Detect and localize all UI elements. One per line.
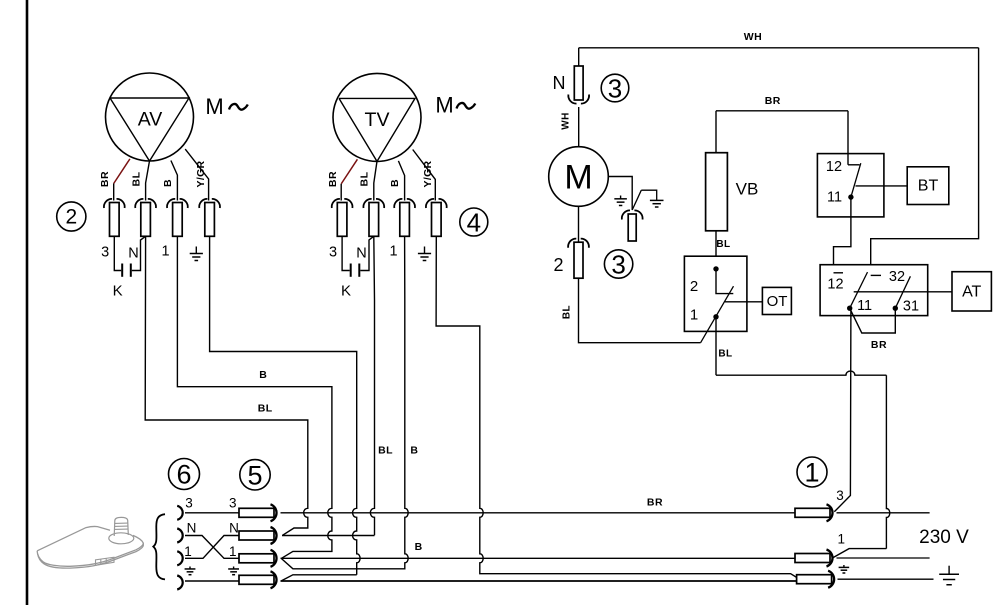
- svg-text:N: N: [187, 521, 197, 536]
- svg-text:BR: BR: [871, 339, 887, 351]
- svg-text:BR: BR: [327, 171, 339, 187]
- svg-text:1: 1: [390, 244, 398, 260]
- svg-text:N: N: [356, 245, 366, 261]
- svg-text:BT: BT: [918, 178, 939, 195]
- svg-text:2: 2: [690, 278, 698, 295]
- svg-text:5: 5: [247, 460, 262, 490]
- svg-text:3: 3: [229, 496, 237, 511]
- svg-text:M: M: [435, 93, 453, 118]
- svg-text:3: 3: [329, 245, 337, 261]
- svg-text:AV: AV: [138, 109, 163, 131]
- svg-text:1: 1: [804, 458, 819, 488]
- svg-text:OT: OT: [767, 293, 788, 310]
- svg-text:M: M: [205, 94, 223, 119]
- svg-text:B: B: [389, 179, 401, 187]
- svg-text:BL: BL: [258, 402, 273, 414]
- svg-text:BL: BL: [131, 171, 143, 186]
- svg-text:3: 3: [836, 488, 844, 503]
- svg-text:BL: BL: [359, 171, 371, 186]
- svg-text:BL: BL: [716, 239, 730, 250]
- svg-text:BR: BR: [99, 171, 111, 187]
- svg-text:B: B: [410, 444, 418, 456]
- svg-text:3: 3: [101, 245, 109, 261]
- svg-text:K: K: [113, 283, 123, 300]
- svg-text:BR: BR: [647, 496, 663, 508]
- svg-text:1: 1: [690, 307, 698, 324]
- svg-text:WH: WH: [744, 31, 763, 43]
- svg-text:11: 11: [857, 298, 872, 314]
- svg-text:BR: BR: [765, 95, 781, 107]
- svg-text:BL: BL: [378, 444, 393, 456]
- svg-text:1: 1: [162, 244, 170, 260]
- svg-text:31: 31: [903, 299, 919, 315]
- svg-text:1: 1: [838, 532, 846, 547]
- svg-text:Y/GR: Y/GR: [422, 160, 434, 187]
- svg-text:K: K: [341, 283, 351, 300]
- svg-text:WH: WH: [561, 112, 572, 129]
- svg-text:1: 1: [229, 544, 237, 559]
- svg-text:Y/GR: Y/GR: [195, 160, 207, 187]
- svg-text:2: 2: [553, 255, 563, 275]
- svg-text:N: N: [128, 245, 138, 261]
- svg-text:3: 3: [608, 74, 622, 104]
- svg-text:2: 2: [65, 206, 77, 229]
- svg-text:VB: VB: [736, 180, 759, 199]
- svg-text:4: 4: [467, 208, 481, 238]
- svg-text:N: N: [553, 73, 566, 93]
- svg-text:3: 3: [611, 250, 625, 280]
- svg-text:230 V: 230 V: [919, 527, 969, 548]
- svg-text:32: 32: [889, 269, 905, 285]
- svg-text:M: M: [564, 159, 592, 197]
- svg-text:TV: TV: [365, 109, 390, 131]
- svg-text:12: 12: [827, 277, 843, 293]
- svg-text:3: 3: [185, 496, 193, 511]
- svg-text:11: 11: [827, 190, 842, 206]
- svg-text:12: 12: [826, 159, 842, 175]
- svg-text:N: N: [229, 521, 239, 536]
- svg-text:1: 1: [184, 544, 192, 559]
- svg-text:BL: BL: [718, 349, 732, 360]
- svg-text:B: B: [415, 541, 423, 553]
- svg-text:B: B: [259, 369, 267, 381]
- svg-text:BL: BL: [562, 305, 573, 319]
- svg-text:B: B: [162, 179, 174, 187]
- svg-text:6: 6: [176, 460, 191, 490]
- svg-text:AT: AT: [962, 284, 981, 301]
